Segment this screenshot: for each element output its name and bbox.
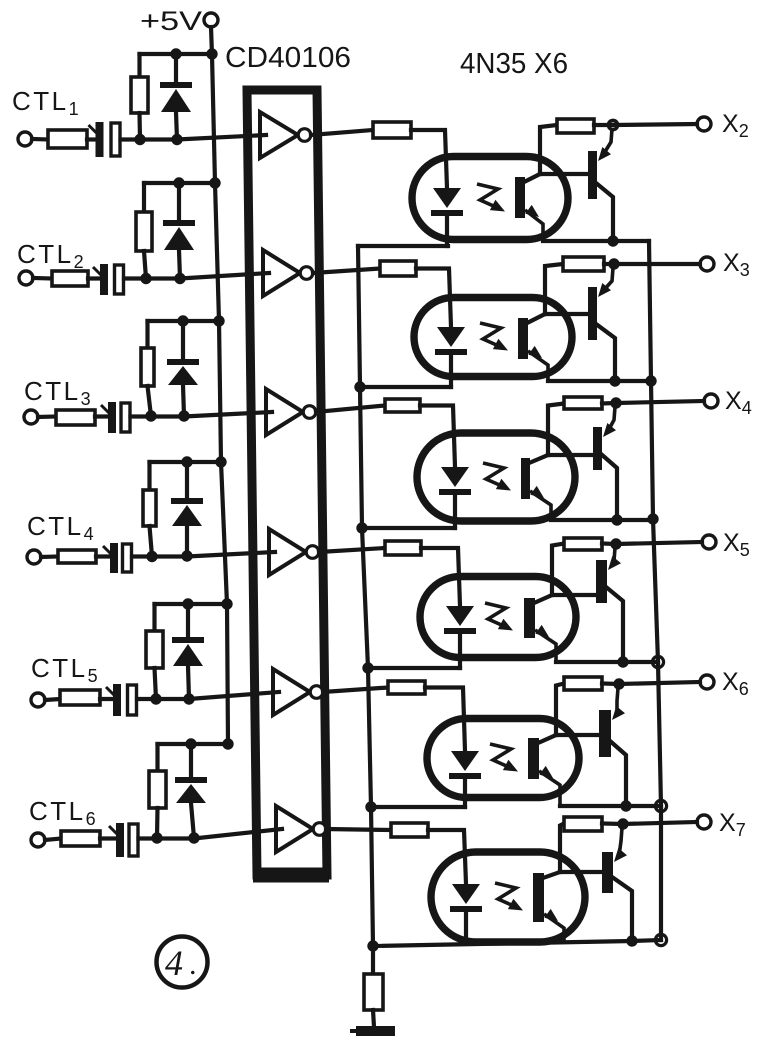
node junction bbox=[188, 832, 199, 843]
input resistor ch6 bbox=[61, 831, 100, 846]
pull-up resistor ch3 bbox=[141, 348, 154, 386]
wire collector riser bbox=[556, 684, 564, 736]
wire X7 line bbox=[602, 822, 697, 824]
wire bbox=[150, 526, 153, 557]
wire transistor collector bbox=[596, 183, 613, 241]
junction bbox=[185, 738, 196, 749]
opto phototransistor ch4 bbox=[524, 598, 535, 638]
junction bbox=[356, 522, 367, 533]
wire to LED anode bbox=[420, 406, 455, 468]
capacitor C1 bbox=[89, 122, 121, 157]
wire to inverter input bbox=[139, 829, 283, 839]
wire to inverter input bbox=[132, 552, 275, 557]
wire bbox=[188, 666, 189, 699]
light arrow bbox=[495, 883, 516, 907]
LED series resistor ch2 bbox=[380, 261, 416, 276]
terminal X5 bbox=[702, 535, 716, 549]
input resistor ch3 bbox=[56, 410, 95, 425]
terminal CTL2 bbox=[19, 271, 33, 285]
wire to inverter input bbox=[137, 692, 279, 699]
wire bbox=[183, 385, 184, 416]
node junction bbox=[150, 693, 161, 704]
wire bbox=[179, 250, 180, 279]
wire cathode line ch3 bbox=[362, 526, 455, 530]
wire X2 line bbox=[594, 124, 697, 125]
wire to transistor base bbox=[560, 870, 602, 874]
junction bbox=[645, 375, 656, 386]
opto phototransistor ch1 bbox=[515, 177, 525, 218]
capacitor C2 bbox=[93, 264, 124, 295]
terminal X2 bbox=[697, 117, 711, 131]
wire bbox=[32, 137, 48, 142]
opto LED ch1 bbox=[431, 188, 463, 216]
wire photo collector bbox=[538, 735, 556, 743]
wire bbox=[191, 803, 194, 838]
wire +5V sub-rail ch2 bbox=[144, 181, 215, 185]
node junction bbox=[181, 550, 192, 561]
terminal CTL4 bbox=[27, 550, 41, 564]
svg-text:4N35 X6: 4N35 X6 bbox=[460, 48, 568, 80]
wire collector riser bbox=[540, 125, 557, 174]
terminal X7 bbox=[697, 815, 711, 829]
diode D4 bbox=[171, 498, 203, 526]
wire right bus bbox=[649, 241, 661, 940]
node X5 bbox=[610, 538, 621, 549]
opto LED ch6 bbox=[450, 884, 482, 912]
wire LED cathode bbox=[458, 634, 462, 668]
optocoupler U5 4N35 body bbox=[420, 577, 576, 658]
light arrow bbox=[477, 184, 498, 208]
pull-up resistor ch4 bbox=[143, 490, 156, 526]
wire photo emitter bbox=[535, 630, 556, 662]
junction bbox=[607, 235, 618, 246]
ground resistor bbox=[364, 974, 383, 1010]
LED series resistor ch5 bbox=[388, 681, 425, 694]
node junction bbox=[151, 832, 162, 843]
wire to transistor base bbox=[548, 453, 593, 457]
wire bbox=[41, 554, 58, 559]
optocoupler U6 4N35 body bbox=[427, 719, 579, 798]
LED series resistor ch1 bbox=[373, 122, 411, 138]
node junction bbox=[140, 273, 151, 284]
wire bbox=[152, 604, 156, 631]
node junction bbox=[171, 134, 182, 145]
wire bbox=[155, 668, 157, 699]
+5V rail bbox=[211, 27, 228, 744]
opto phototransistor ch6 bbox=[533, 873, 544, 922]
pull-up resistor X6 bbox=[564, 677, 602, 690]
diode D5 bbox=[172, 637, 204, 666]
junction bbox=[611, 514, 622, 525]
light arrow bbox=[480, 323, 501, 347]
node junction bbox=[174, 273, 185, 284]
junction bbox=[354, 381, 365, 392]
node junction bbox=[134, 134, 145, 145]
junction ring bbox=[655, 800, 666, 811]
node X6 bbox=[613, 678, 624, 689]
wire photo collector bbox=[534, 595, 552, 603]
wire X3 line bbox=[604, 262, 700, 266]
wire to LED anode bbox=[425, 688, 465, 752]
capacitor C6 bbox=[109, 823, 138, 857]
junction on +5V rail bbox=[221, 598, 232, 609]
wire photo emitter bbox=[539, 771, 560, 806]
figure number 4 bbox=[157, 937, 208, 988]
junction bbox=[367, 940, 378, 951]
wire transistor collector bbox=[601, 454, 617, 520]
light arrow bbox=[485, 603, 506, 627]
LED series resistor ch3 bbox=[385, 399, 420, 412]
wire transistor collector bbox=[610, 741, 626, 806]
wire bbox=[96, 554, 110, 558]
wire transistor collector bbox=[596, 324, 615, 381]
wire inverter output bbox=[323, 688, 388, 693]
diode D3 bbox=[167, 359, 199, 385]
wire collector riser bbox=[560, 824, 564, 873]
junction ring bbox=[655, 934, 666, 945]
capacitor C4 bbox=[103, 543, 132, 573]
optocoupler U3 4N35 body bbox=[414, 298, 572, 377]
wire +5V sub-rail ch1 bbox=[140, 52, 213, 56]
junction bbox=[181, 456, 192, 467]
wire LED cathode bbox=[445, 216, 449, 246]
junction bbox=[182, 598, 193, 609]
node X7 bbox=[617, 818, 628, 829]
transistor Q1 bbox=[588, 151, 597, 199]
node junction bbox=[178, 410, 189, 421]
node junction bbox=[183, 693, 194, 704]
wire to transistor base bbox=[540, 172, 588, 176]
input resistor ch1 bbox=[48, 130, 87, 148]
wire bbox=[45, 699, 60, 700]
wire bbox=[174, 54, 178, 82]
wire photo emitter bbox=[530, 491, 551, 520]
pull-up resistor X4 bbox=[564, 397, 602, 409]
wire to transistor base bbox=[545, 312, 588, 316]
junction bbox=[170, 48, 181, 59]
transistor Q2 bbox=[588, 287, 597, 340]
wire bbox=[100, 697, 113, 701]
junction bbox=[626, 935, 637, 946]
inverter U1B bbox=[263, 250, 313, 296]
wire inverter output bbox=[313, 269, 380, 274]
wire LED cathode bbox=[463, 779, 467, 807]
pull-up resistor X3 bbox=[563, 257, 604, 271]
wire photo collector bbox=[524, 174, 540, 182]
junction bbox=[617, 656, 628, 667]
pull-up resistor X2 bbox=[557, 119, 594, 133]
wire bbox=[181, 321, 185, 359]
wire photo emitter bbox=[528, 351, 548, 381]
diode D6 bbox=[175, 777, 207, 803]
wire bbox=[177, 183, 181, 220]
wire to transistor base bbox=[552, 593, 596, 597]
transistor Q5 bbox=[599, 710, 611, 757]
IC U1 CD40106 body bbox=[247, 90, 327, 875]
transistor Q6 bbox=[602, 852, 613, 893]
wire to inverter input bbox=[121, 135, 267, 140]
pull-up resistor ch6 bbox=[149, 771, 166, 808]
optocoupler U4 4N35 body bbox=[417, 433, 575, 521]
ground bbox=[350, 1026, 395, 1036]
wire bbox=[185, 462, 189, 498]
wire photo collector bbox=[529, 455, 548, 463]
wire bbox=[144, 251, 146, 279]
optocoupler U2 4N35 body bbox=[412, 157, 568, 240]
junction bbox=[362, 662, 373, 673]
wire bbox=[87, 137, 96, 141]
wire collector riser bbox=[545, 264, 563, 314]
wire bbox=[142, 183, 146, 212]
terminal X6 bbox=[700, 675, 714, 689]
wire X6 line bbox=[602, 682, 700, 684]
wire transistor emitter bbox=[617, 688, 618, 714]
wire bbox=[155, 744, 159, 771]
LED series resistor ch6 bbox=[391, 823, 428, 837]
wire collector riser bbox=[552, 544, 564, 596]
wire photo collector bbox=[527, 314, 545, 323]
wire LED cathode bbox=[453, 495, 457, 528]
wire photo emitter bbox=[544, 914, 564, 941]
junction bbox=[177, 315, 188, 326]
junction bbox=[620, 800, 631, 811]
svg-text:+5V: +5V bbox=[140, 6, 202, 36]
wire to LED anode bbox=[416, 269, 451, 328]
wire junction line ch3 bbox=[551, 518, 653, 522]
wire inverter output bbox=[326, 829, 391, 830]
input resistor ch5 bbox=[60, 690, 100, 705]
light arrow bbox=[490, 744, 511, 768]
wire bbox=[185, 526, 189, 556]
wire junction line ch4 bbox=[556, 660, 658, 664]
wire junction line ch5 bbox=[560, 804, 661, 808]
wire transistor emitter bbox=[603, 268, 613, 291]
wire transistor emitter bbox=[603, 129, 612, 155]
node X3 bbox=[608, 258, 619, 269]
wire bbox=[371, 946, 375, 974]
opto LED ch5 bbox=[449, 751, 481, 779]
wire cathode line ch4 bbox=[368, 666, 460, 670]
inverter U1A bbox=[260, 112, 311, 158]
LED series resistor ch4 bbox=[385, 541, 421, 555]
junction on +5V rail bbox=[222, 738, 233, 749]
wire +5V sub-rail ch4 bbox=[150, 460, 222, 464]
pull-up resistor X7 bbox=[564, 817, 602, 831]
inverter U1F bbox=[276, 806, 326, 852]
wire LED cathode bbox=[449, 355, 453, 387]
+5V terminal bbox=[204, 13, 218, 27]
wire bbox=[148, 386, 152, 416]
wire cathode line ch1 bbox=[358, 244, 448, 248]
wire bbox=[137, 113, 142, 140]
wire +5V sub-rail ch3 bbox=[148, 319, 220, 323]
terminal X4 bbox=[704, 394, 718, 408]
svg-text:4: 4 bbox=[165, 943, 183, 983]
wire bbox=[45, 839, 61, 841]
node X2 bbox=[608, 120, 617, 129]
wire transistor emitter bbox=[619, 828, 622, 856]
diode D2 bbox=[163, 220, 195, 250]
opto LED ch3 bbox=[439, 467, 471, 495]
pull-up resistor ch5 bbox=[146, 631, 163, 668]
wire bbox=[189, 744, 193, 777]
wire bbox=[186, 604, 190, 637]
junction bbox=[647, 513, 658, 524]
terminal X3 bbox=[700, 257, 714, 271]
light arrow bbox=[483, 463, 504, 487]
svg-text:.: . bbox=[189, 948, 197, 981]
pull-up resistor ch2 bbox=[136, 212, 152, 251]
wire bbox=[95, 414, 108, 418]
wire transistor emitter bbox=[608, 407, 615, 431]
junction bbox=[173, 177, 184, 188]
input resistor ch2 bbox=[52, 271, 88, 286]
wire to LED anode bbox=[421, 548, 460, 606]
wire to LED anode bbox=[411, 130, 447, 188]
opto phototransistor ch2 bbox=[518, 318, 528, 359]
wire bbox=[100, 836, 116, 840]
wire transistor emitter bbox=[613, 548, 615, 564]
wire transistor collector bbox=[612, 877, 632, 941]
wire inverter output bbox=[311, 130, 373, 135]
junction bbox=[609, 375, 620, 386]
junction ring bbox=[652, 656, 663, 667]
node junction bbox=[145, 410, 156, 421]
wire transistor collector bbox=[606, 587, 623, 662]
wire bbox=[373, 1010, 374, 1027]
capacitor C3 bbox=[101, 402, 130, 433]
wire photo emitter bbox=[525, 210, 543, 241]
terminal CTL5 bbox=[31, 693, 45, 707]
wire bottom common line bbox=[373, 940, 661, 946]
pull-up resistor X5 bbox=[564, 538, 602, 550]
wire junction line ch2 bbox=[548, 379, 651, 383]
junction bbox=[365, 801, 376, 812]
wire cathode line ch2 bbox=[360, 385, 451, 389]
optocoupler U7 4N35 body bbox=[431, 852, 585, 942]
wire collector riser bbox=[548, 404, 564, 456]
wire LED cathode bbox=[464, 912, 468, 943]
wire inverter output bbox=[319, 548, 385, 552]
terminal CTL1 bbox=[18, 132, 32, 146]
inverter U1C bbox=[266, 389, 316, 435]
wire to transistor base bbox=[556, 733, 599, 737]
wire X5 line bbox=[602, 542, 702, 544]
wire to inverter input bbox=[131, 412, 273, 417]
wire cathode bus bbox=[358, 246, 373, 946]
transistor Q3 bbox=[593, 427, 602, 470]
svg-text:CD40106: CD40106 bbox=[225, 42, 351, 74]
opto phototransistor ch3 bbox=[521, 458, 530, 499]
wire bbox=[88, 276, 100, 280]
node junction bbox=[146, 551, 157, 562]
wire bbox=[155, 808, 160, 838]
wire bbox=[38, 414, 56, 419]
wire photo collector bbox=[543, 872, 560, 878]
wire inverter output bbox=[316, 406, 385, 413]
junction on +5V rail bbox=[209, 177, 220, 188]
junction on +5V rail bbox=[213, 315, 224, 326]
wire bbox=[176, 112, 177, 140]
wire bbox=[137, 54, 141, 77]
opto LED ch2 bbox=[435, 327, 467, 355]
inverter U1D bbox=[269, 529, 319, 575]
wire bbox=[33, 276, 52, 281]
junction on +5V rail bbox=[206, 48, 217, 59]
wire to inverter input bbox=[124, 273, 269, 279]
inverter U1E bbox=[273, 669, 323, 715]
terminal CTL6 bbox=[31, 833, 45, 847]
node X4 bbox=[610, 397, 621, 408]
terminal CTL3 bbox=[24, 410, 38, 424]
pull-up resistor ch1 bbox=[131, 77, 148, 113]
opto phototransistor ch5 bbox=[528, 738, 539, 779]
junction on +5V rail bbox=[215, 456, 226, 467]
wire junction line ch1 bbox=[543, 239, 649, 243]
wire +5V sub-rail ch6 bbox=[158, 742, 229, 746]
wire cathode line ch5 bbox=[371, 805, 465, 809]
capacitor C5 bbox=[106, 684, 137, 716]
wire to LED anode bbox=[428, 830, 466, 884]
input resistor ch4 bbox=[58, 550, 96, 563]
diode D1 bbox=[160, 82, 192, 112]
wire X4 line bbox=[602, 401, 704, 404]
opto LED ch4 bbox=[444, 606, 476, 634]
wire +5V sub-rail ch5 bbox=[155, 602, 228, 606]
wire bbox=[145, 321, 149, 348]
wire bbox=[147, 462, 151, 490]
transistor Q4 bbox=[596, 560, 607, 603]
